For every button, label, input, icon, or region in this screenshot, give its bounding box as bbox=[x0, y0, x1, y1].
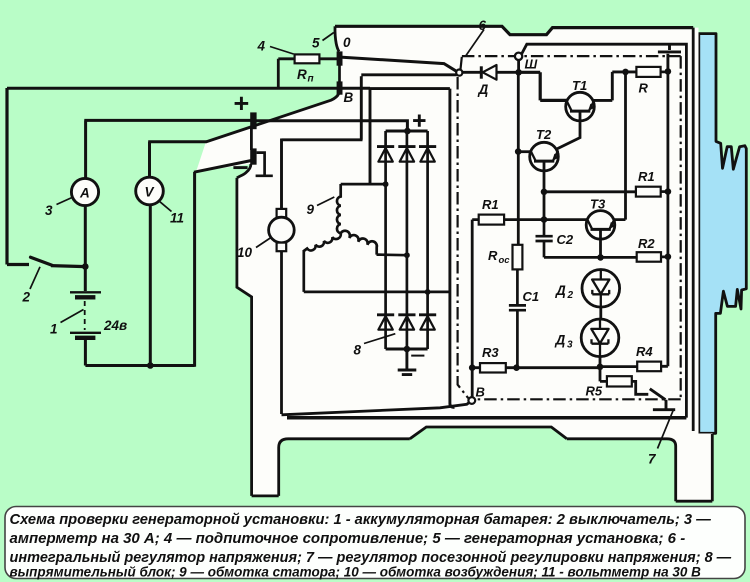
wire: voltmeter top to diagonal bbox=[148, 142, 206, 178]
svg-text:п: п bbox=[308, 74, 314, 85]
wire: excitation feed frame (to diode junction) bbox=[282, 75, 457, 209]
wire: junction up to ammeter bbox=[84, 206, 87, 267]
wire: battery leads bbox=[84, 267, 87, 366]
wire: switch to battery junction bbox=[51, 266, 85, 267]
stator phase 3 wire to diode column 2 bbox=[377, 253, 407, 256]
caption box bbox=[5, 507, 745, 579]
wire: switch feed bbox=[7, 263, 29, 266]
wire: T2 base down, to R1 and to divider bbox=[544, 162, 636, 220]
wire: right riser to minus terminal bbox=[194, 160, 252, 366]
diode Д: triangle bbox=[483, 65, 497, 80]
stator winding phase 3 coil (down-right) bbox=[341, 231, 377, 255]
pulley (blue hatched strip with comb teeth) bbox=[699, 34, 747, 434]
svg-text:выпрямительный блок; 9 — обмот: выпрямительный блок; 9 — обмотка статора… bbox=[10, 565, 702, 580]
polarity dash near rectifier ground bbox=[411, 355, 424, 357]
ground of minus terminal to housing bbox=[256, 153, 273, 176]
zener Д3: symbol bbox=[591, 319, 608, 357]
svg-text:10: 10 bbox=[237, 245, 253, 260]
resistor R1 left: leads bbox=[472, 220, 587, 397]
svg-text:24в: 24в bbox=[103, 318, 127, 333]
resistor R: body bbox=[636, 67, 660, 77]
voltmeter V (11) bbox=[136, 177, 164, 205]
zener Д2: circle bbox=[582, 270, 620, 308]
wire: Ш rail down to Rос bbox=[517, 72, 520, 245]
node B (regulator output): open circle bbox=[468, 397, 475, 404]
terminal B: bar bbox=[337, 81, 343, 94]
node: open junction at regulator input bbox=[456, 70, 462, 76]
stator phase 1 wire to diode column 1 bbox=[341, 183, 386, 186]
svg-text:R: R bbox=[488, 248, 498, 263]
svg-text:C2: C2 bbox=[557, 232, 574, 247]
svg-text:9: 9 bbox=[307, 202, 315, 217]
resistor R5: leads bbox=[600, 367, 648, 395]
node Ш: dot and stem to terminal circle bbox=[515, 69, 522, 76]
resistor R3: body bbox=[480, 363, 506, 372]
svg-text:Д: Д bbox=[555, 283, 566, 298]
svg-text:T1: T1 bbox=[572, 78, 587, 93]
svg-text:A: A bbox=[79, 186, 90, 201]
wire: junction to diode Д bbox=[463, 71, 481, 74]
battery: dashed link bbox=[84, 301, 86, 330]
svg-text:R2: R2 bbox=[638, 236, 655, 251]
seasonal adjuster (7): blade and contact bbox=[650, 389, 675, 410]
wire: left loop vertical bbox=[5, 88, 8, 265]
terminal +: bar bbox=[250, 112, 256, 129]
wire: Д2 to Д3 bbox=[599, 307, 602, 319]
resistor Rос: body bbox=[513, 245, 523, 270]
resistor Rп (4): leads bbox=[278, 59, 339, 87]
svg-text:11: 11 bbox=[170, 211, 184, 226]
resistor R4: body bbox=[637, 362, 661, 372]
stator phase 2 wire to diode column 3 bbox=[304, 250, 450, 292]
wire: T1 base down to T2 emitter bbox=[557, 112, 580, 149]
housing outline: bottom edge bbox=[287, 416, 686, 420]
diode Д: cathode bar bbox=[480, 66, 483, 78]
svg-text:3: 3 bbox=[567, 340, 573, 351]
excitation winding rotor circle bbox=[269, 217, 295, 243]
wire: 0 to B connector bbox=[338, 65, 341, 82]
battery GB (1): top cell bbox=[70, 291, 101, 293]
rectifier top diode row: cathode bars bbox=[377, 145, 436, 148]
capacitor C2 bbox=[536, 220, 601, 258]
svg-text:1: 1 bbox=[50, 322, 58, 337]
generator housing silhouette (unit 5) bbox=[196, 26, 713, 501]
wire: R to right rail bbox=[661, 71, 668, 74]
excitation winding (10): upper brush bbox=[277, 209, 287, 218]
regulator (6) border dash-dot bbox=[458, 56, 681, 399]
svg-text:Д: Д bbox=[555, 333, 566, 348]
svg-text:Ш: Ш bbox=[525, 57, 538, 72]
rectifier top diode row: triangles bbox=[378, 148, 434, 162]
svg-text:5: 5 bbox=[312, 36, 320, 51]
svg-text:R1: R1 bbox=[482, 197, 499, 212]
svg-text:T3: T3 bbox=[590, 197, 606, 212]
svg-text:4: 4 bbox=[257, 39, 266, 54]
svg-text:R1: R1 bbox=[638, 169, 655, 184]
housing outline: top-left corner curve to terminal block bbox=[335, 26, 339, 51]
battery: bottom cell bbox=[70, 332, 101, 334]
node: battery junction dot bbox=[82, 263, 89, 270]
svg-text:R: R bbox=[297, 67, 307, 82]
wire: bottom sense rail R3..R4 bbox=[472, 367, 637, 368]
housing outline: bottom band, legs, left side bbox=[237, 127, 712, 502]
wire: diode to node Ш bbox=[497, 71, 519, 74]
svg-text:R3: R3 bbox=[482, 345, 499, 360]
housing outline: inner wall (double line) bbox=[522, 44, 687, 417]
svg-text:Схема проверки генераторной ус: Схема проверки генераторной установки: 1… bbox=[10, 512, 712, 528]
svg-text:Д: Д bbox=[478, 82, 489, 97]
chassis bar at regulator top bbox=[658, 44, 681, 71]
wire: T3 base down to zener junction bbox=[599, 230, 602, 258]
rectifier diode column 1 bbox=[384, 131, 387, 349]
svg-text:R5: R5 bbox=[586, 384, 603, 399]
terminal -: bar bbox=[250, 148, 256, 164]
rectifier bottom diode row: triangles bbox=[378, 316, 434, 329]
node: T2 base / divider junction bbox=[541, 216, 548, 223]
capacitor C1 bbox=[509, 269, 526, 367]
wire: ammeter top to + rail bbox=[84, 120, 252, 178]
svg-text:T2: T2 bbox=[536, 127, 552, 142]
svg-text:C1: C1 bbox=[523, 289, 540, 304]
housing outline: top edge bbox=[335, 26, 693, 34]
wire: + rail continues to rectifier bus bbox=[256, 121, 407, 131]
svg-text:V: V bbox=[145, 185, 155, 200]
resistor R2: body and wires bbox=[600, 255, 668, 258]
transistor T1 bbox=[566, 92, 595, 121]
svg-text:В: В bbox=[344, 90, 354, 105]
node: bottom rail dot bbox=[147, 362, 154, 369]
zener Д3: circle bbox=[581, 319, 619, 357]
transistor T3 bbox=[586, 211, 615, 240]
switch SA (2) blade bbox=[31, 257, 53, 265]
wire: Д3 to bottom junction bbox=[599, 357, 602, 367]
resistor R5: body bbox=[607, 376, 632, 386]
zener Д2: symbol bbox=[592, 270, 609, 307]
svg-text:2: 2 bbox=[567, 290, 574, 301]
wire: diagonal from terminal B through + terminal to voltmeter corner bbox=[206, 94, 339, 142]
rectifier diode column 2 bbox=[406, 131, 409, 349]
right rail of regulator bbox=[661, 71, 668, 366]
resistor R1 left: body bbox=[479, 215, 504, 225]
transistor T2 bbox=[530, 142, 559, 171]
svg-text:0: 0 bbox=[343, 35, 351, 50]
stator winding (9): phase 1 coil (up) bbox=[337, 184, 341, 233]
node: rail tap dot bbox=[622, 69, 629, 76]
wire: slip-ring frame (from terminal B wire) bbox=[369, 89, 455, 408]
housing outline: right outer edge bbox=[692, 28, 695, 431]
wire: T1 collector to resistor R bbox=[594, 72, 637, 101]
wire: T2 collector to Ш rail bbox=[518, 150, 530, 153]
rectifier (8): plus bus bbox=[386, 130, 428, 133]
svg-text:В: В bbox=[476, 385, 485, 400]
rectifier diode column 3 bbox=[426, 131, 429, 349]
svg-text:R: R bbox=[639, 81, 649, 96]
resistor R1 right: body bbox=[636, 187, 661, 197]
rectifier ground bbox=[398, 349, 417, 375]
plus sign at rectifier bbox=[413, 115, 425, 127]
excitation winding lower brush bbox=[277, 243, 287, 252]
node: zener top junction bbox=[597, 254, 604, 261]
svg-text:R4: R4 bbox=[636, 344, 653, 359]
ammeter A (3) bbox=[71, 178, 98, 205]
svg-text:8: 8 bbox=[354, 343, 362, 358]
svg-text:ос: ос bbox=[499, 255, 511, 266]
wire: top horizontal to terminal B and slip-ring frame bbox=[7, 87, 370, 90]
wire: battery bottom rail bbox=[85, 364, 194, 367]
wire: terminal 0 to diode junction bbox=[342, 57, 456, 71]
wire: voltmeter bottom to battery minus rail bbox=[149, 205, 152, 366]
svg-text:амперметр на 30 А; 4 — подпито: амперметр на 30 А; 4 — подпиточное сопро… bbox=[10, 530, 686, 547]
svg-text:2: 2 bbox=[22, 290, 31, 305]
rectifier minus bus bbox=[386, 348, 428, 351]
wire: Ш to T1 emitter-left bbox=[517, 72, 566, 100]
minus sign bbox=[233, 166, 247, 169]
rectifier bottom diode row: cathode bars bbox=[377, 313, 436, 316]
terminal 0: bar bbox=[337, 51, 343, 65]
svg-text:3: 3 bbox=[45, 203, 53, 218]
plus sign at + terminal bbox=[235, 97, 249, 110]
wire: excitation bottom to terminal B of regulator bbox=[282, 251, 470, 415]
resistor Rп body bbox=[295, 54, 320, 63]
stator winding phase 2 coil (down-left) bbox=[304, 233, 341, 251]
wire: rail down to T3 emitter bbox=[614, 72, 626, 220]
